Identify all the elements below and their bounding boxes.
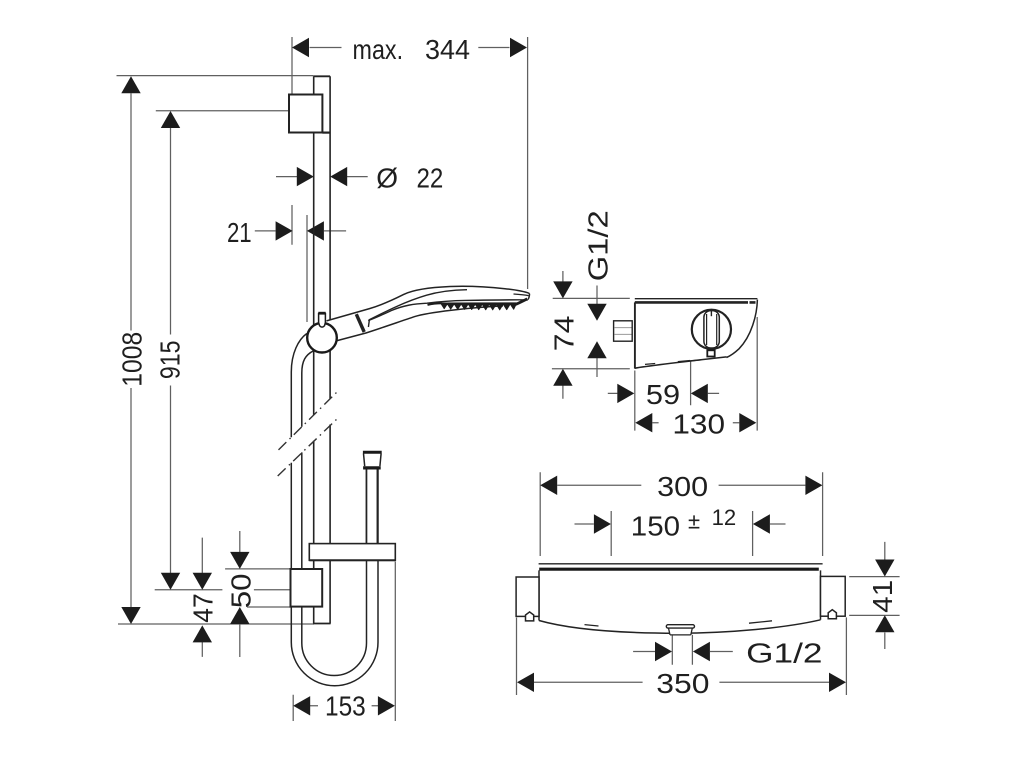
svg-text:150: 150 — [631, 510, 680, 541]
svg-text:41: 41 — [867, 580, 898, 613]
svg-text:G1/2: G1/2 — [746, 637, 822, 668]
svg-text:350: 350 — [656, 668, 709, 699]
svg-text:22: 22 — [417, 162, 444, 193]
svg-text:153: 153 — [325, 691, 366, 722]
svg-text:47: 47 — [188, 593, 219, 622]
svg-text:59: 59 — [646, 379, 680, 410]
svg-text:300: 300 — [657, 471, 708, 502]
svg-text:±: ± — [688, 509, 700, 534]
svg-text:915: 915 — [155, 340, 186, 379]
svg-text:74: 74 — [548, 316, 579, 352]
svg-text:12: 12 — [712, 505, 737, 530]
svg-text:21: 21 — [227, 217, 252, 248]
svg-text:1008: 1008 — [116, 332, 147, 387]
svg-text:max.: max. — [353, 34, 404, 65]
svg-text:50: 50 — [225, 574, 256, 609]
svg-text:130: 130 — [672, 409, 725, 440]
svg-text:Ø: Ø — [376, 162, 398, 193]
svg-text:G1/2: G1/2 — [583, 210, 614, 281]
svg-text:344: 344 — [425, 34, 470, 65]
